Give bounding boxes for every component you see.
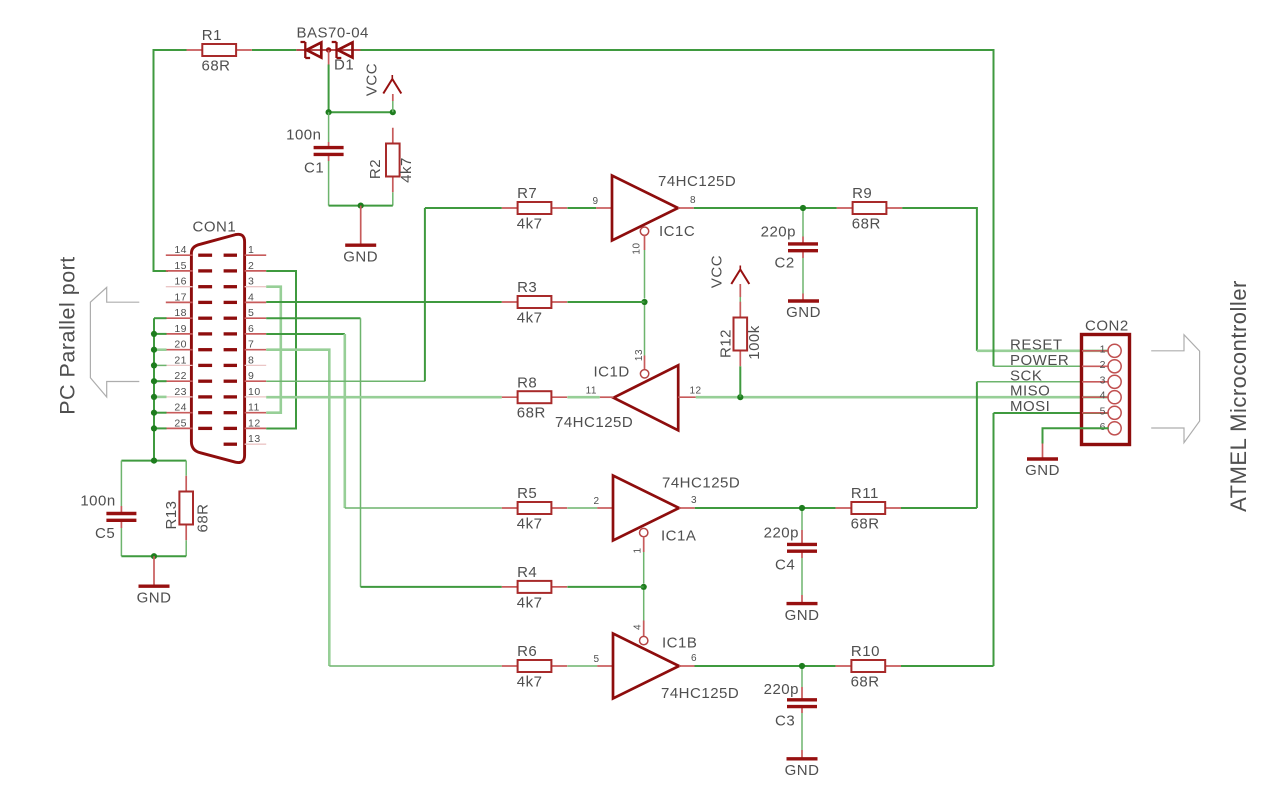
- PC parallel port arrow: [90, 287, 139, 397]
- wire down to R5 row: [343, 334, 346, 508]
- svg-text:17: 17: [174, 291, 187, 303]
- svg-text:220p: 220p: [764, 681, 799, 698]
- junction bus pin 19: [151, 331, 157, 337]
- pin GND lead: [802, 294, 804, 300]
- wire bus to pin 23: [154, 396, 167, 399]
- resistor R7: [502, 185, 567, 232]
- wire junction to IC1B enable: [643, 590, 645, 621]
- svg-text:18: 18: [174, 307, 187, 319]
- pin VCC lead: [739, 284, 741, 297]
- wire IC1C output to R9: [694, 207, 837, 209]
- VCC supply symbol (R12): [709, 255, 750, 288]
- wire to R5: [345, 507, 502, 509]
- wire CON1 ground bus: [153, 318, 155, 460]
- svg-text:23: 23: [174, 386, 187, 398]
- pin 8 of IC1C: [678, 207, 694, 209]
- wire R2 to ground rail: [392, 192, 394, 205]
- svg-text:13: 13: [634, 349, 645, 361]
- pin 24 of CON1: [166, 402, 212, 414]
- svg-text:100n: 100n: [286, 127, 321, 144]
- svg-text:20: 20: [174, 339, 187, 351]
- pin GND lead: [801, 750, 803, 758]
- svg-text:68R: 68R: [517, 405, 546, 422]
- junction enable net: [641, 299, 647, 305]
- svg-text:R7: R7: [517, 185, 537, 202]
- svg-text:RESET: RESET: [1010, 336, 1063, 353]
- wire POWER to CON2: [994, 365, 1109, 367]
- resistor R5: [502, 485, 567, 532]
- svg-text:R13: R13: [163, 500, 180, 529]
- svg-text:220p: 220p: [764, 525, 799, 542]
- enable bubble IC1C: [640, 227, 648, 235]
- svg-text:C1: C1: [304, 160, 324, 177]
- pin 21 of CON1: [166, 354, 212, 366]
- svg-text:220p: 220p: [761, 224, 796, 241]
- wire R1 to D1: [252, 49, 296, 51]
- svg-text:3: 3: [248, 276, 254, 288]
- wire R9 to RESET corner: [902, 208, 977, 351]
- pin 1 of CON1: [224, 244, 267, 256]
- ground GND (CON2): [1025, 459, 1060, 479]
- enable bubble IC1B: [640, 636, 648, 644]
- svg-text:12: 12: [690, 386, 702, 397]
- op-amp buffer IC1B (74HC125D): [613, 634, 679, 699]
- pin 20 of CON1: [166, 339, 212, 351]
- svg-text:IC1A: IC1A: [661, 528, 696, 545]
- wire VCC to node: [392, 101, 394, 112]
- pin 13 of IC1D: [644, 356, 646, 370]
- pin 2 of IC1A: [597, 507, 613, 509]
- resistor R6: [502, 643, 567, 690]
- svg-text:74HC125D: 74HC125D: [661, 685, 739, 702]
- wire bus to pin 19: [154, 333, 167, 335]
- wire R8 to IC1D output: [567, 396, 599, 399]
- wire bus to pin 21: [154, 364, 167, 366]
- wire R11 right: [901, 507, 977, 509]
- pin 2 of CON1: [224, 260, 267, 272]
- wire IC1A enable to junction: [643, 552, 645, 584]
- svg-text:R5: R5: [517, 485, 537, 502]
- pin 12 of CON1: [224, 417, 267, 429]
- wire R4 to enable junction: [567, 586, 643, 588]
- svg-text:2: 2: [593, 496, 599, 507]
- wire R5 to IC1A input: [567, 507, 597, 509]
- wire bus to pin 25: [154, 427, 167, 429]
- svg-text:68R: 68R: [202, 58, 231, 75]
- resistor R2: [367, 128, 415, 193]
- wire IC1C enable to junction: [644, 250, 646, 299]
- wire R13 to bottom rail: [185, 540, 187, 556]
- resistor R3: [502, 279, 567, 326]
- svg-text:VCC: VCC: [709, 255, 726, 288]
- svg-text:10: 10: [631, 242, 642, 254]
- junction bus pin 22: [151, 378, 157, 384]
- ground GND (C1/R2): [343, 245, 378, 265]
- svg-text:IC1D: IC1D: [594, 364, 630, 381]
- svg-text:R11: R11: [851, 485, 879, 502]
- pin 3 of IC1A: [679, 507, 695, 509]
- svg-text:68R: 68R: [851, 516, 880, 533]
- svg-text:R8: R8: [517, 374, 537, 391]
- wire C5/R13 top rail: [121, 460, 186, 462]
- svg-text:4: 4: [248, 291, 254, 303]
- svg-text:68R: 68R: [852, 216, 881, 233]
- svg-text:4: 4: [633, 624, 644, 630]
- wire C2 to ground: [802, 258, 804, 294]
- svg-text:11: 11: [586, 386, 597, 397]
- svg-text:68R: 68R: [851, 674, 880, 691]
- wire to C5: [120, 461, 122, 506]
- svg-text:13: 13: [248, 433, 261, 445]
- wire R3 to enable junction: [567, 301, 644, 303]
- pin 5 of IC1B: [597, 665, 613, 667]
- svg-text:68R: 68R: [195, 503, 212, 532]
- svg-text:74HC125D: 74HC125D: [658, 173, 736, 190]
- svg-text:15: 15: [174, 260, 187, 272]
- op-amp buffer IC1A (74HC125D): [613, 476, 679, 541]
- svg-text:GND: GND: [343, 248, 378, 265]
- pin 10 of IC1C: [644, 235, 646, 250]
- junction enable net A/B: [641, 584, 647, 590]
- junction ground rail: [358, 203, 364, 209]
- pin 9 of IC1C: [596, 207, 612, 209]
- svg-text:VCC: VCC: [364, 63, 381, 96]
- svg-text:C4: C4: [775, 557, 795, 574]
- pin 1 of CON2: [1082, 343, 1121, 357]
- wire D1 tap to VCC node: [328, 65, 330, 113]
- svg-text:8: 8: [690, 195, 696, 206]
- resistor R11: [836, 485, 901, 532]
- svg-text:4k7: 4k7: [517, 216, 543, 233]
- pin 3 of CON1: [224, 276, 267, 288]
- pin GND lead: [801, 595, 803, 602]
- svg-text:74HC125D: 74HC125D: [555, 414, 633, 431]
- wire pin5 toward R4: [266, 317, 360, 319]
- resistor R13: [163, 476, 212, 541]
- svg-text:9: 9: [592, 196, 598, 207]
- svg-text:1: 1: [1100, 343, 1106, 355]
- wire VCC node rail: [329, 111, 393, 113]
- ground GND (C2): [786, 301, 821, 321]
- svg-text:R3: R3: [517, 279, 537, 296]
- junction bus pin 21: [151, 362, 157, 368]
- pin 22 of CON1: [166, 370, 212, 382]
- wire VCC pin: [392, 94, 394, 101]
- wire to R4: [361, 586, 502, 588]
- svg-text:5: 5: [593, 654, 599, 665]
- wire R7 to IC1C input: [567, 207, 596, 209]
- wire bus to pin 22: [154, 380, 167, 382]
- junction C2 tap: [800, 205, 806, 211]
- pin GND lead: [360, 206, 362, 244]
- pin 7 of CON1: [224, 339, 267, 351]
- wire C5/R13 bottom rail: [121, 555, 186, 557]
- pin 11 of IC1D: [600, 396, 614, 398]
- pin GND lead: [153, 556, 155, 585]
- pin 23 of CON1: [166, 386, 212, 398]
- wire rail to R13: [185, 461, 187, 476]
- wire down to C2: [802, 211, 804, 237]
- wire RESET to CON2: [977, 349, 1109, 352]
- svg-text:74HC125D: 74HC125D: [662, 475, 740, 492]
- wire R12 to MISO junction: [739, 366, 741, 397]
- pin 25 of CON1: [166, 417, 212, 429]
- ground GND (C3): [785, 759, 820, 779]
- pin 4 of CON1: [224, 291, 267, 303]
- wire enable junction to IC1D enable: [644, 305, 646, 356]
- wire bus to pin 24: [154, 412, 167, 414]
- resistor R1: [187, 27, 252, 74]
- capacitor C5 100n: [80, 493, 136, 543]
- svg-text:4: 4: [1100, 390, 1106, 402]
- junction C3 tap: [799, 663, 805, 669]
- svg-text:22: 22: [174, 370, 187, 382]
- svg-text:11: 11: [248, 402, 260, 414]
- junction bus pin 24: [151, 410, 157, 416]
- wire C4 to ground: [801, 558, 803, 595]
- wire pin7 toward R6: [266, 350, 329, 666]
- junction bus pin 23: [151, 394, 157, 400]
- svg-text:3: 3: [691, 495, 697, 506]
- wire pin10 to R8 (MISO): [266, 396, 502, 399]
- wire down to C3: [801, 669, 803, 687]
- svg-text:24: 24: [174, 402, 187, 414]
- svg-text:100n: 100n: [80, 493, 115, 510]
- pin 10 of CON1: [224, 386, 267, 398]
- svg-text:C2: C2: [775, 255, 795, 272]
- svg-text:6: 6: [691, 653, 697, 664]
- enable bubble IC1D: [640, 370, 648, 378]
- wire C3 to ground: [801, 713, 803, 750]
- wire pin3 to pin11 loopback: [266, 287, 281, 413]
- pin 15 of CON1: [166, 260, 212, 272]
- svg-text:MOSI: MOSI: [1010, 398, 1050, 415]
- pin C2 leads: [802, 237, 804, 259]
- svg-text:ATMEL Microcontroller: ATMEL Microcontroller: [1226, 280, 1251, 512]
- pin 2 of CON2: [1082, 359, 1121, 373]
- svg-text:5: 5: [1100, 405, 1106, 417]
- svg-text:4k7: 4k7: [517, 594, 543, 611]
- pin C1 top lead: [328, 142, 330, 161]
- capacitor C4 220p: [764, 525, 817, 574]
- svg-text:2: 2: [1100, 359, 1106, 371]
- wire VCC node to C1: [328, 112, 330, 142]
- svg-text:CON2: CON2: [1085, 318, 1129, 335]
- pin 3 of CON2: [1082, 374, 1121, 388]
- svg-text:4k7: 4k7: [398, 157, 415, 183]
- svg-text:IC1B: IC1B: [662, 635, 697, 652]
- pin 9 of CON1: [224, 370, 267, 382]
- pin 18 of CON1: [166, 307, 212, 319]
- wire D1 to POWER corner: [361, 50, 994, 366]
- svg-text:25: 25: [174, 417, 187, 429]
- svg-text:19: 19: [174, 323, 187, 335]
- wire up to R7 row: [425, 208, 502, 381]
- pin 11 of CON1: [224, 402, 267, 414]
- svg-text:GND: GND: [785, 607, 820, 624]
- enable bubble IC1A: [640, 528, 648, 536]
- svg-text:21: 21: [174, 354, 187, 366]
- svg-text:100k: 100k: [746, 325, 763, 360]
- wire IC1B output to R10: [695, 665, 836, 667]
- svg-text:14: 14: [174, 244, 187, 256]
- junction bus to C5 rail: [151, 458, 157, 464]
- diode D1 (BAS70-04 dual schottky): [296, 25, 369, 74]
- svg-text:1: 1: [633, 547, 644, 553]
- wire bus to pin 18: [154, 317, 167, 319]
- wire to R6: [329, 665, 502, 667]
- pin 19 of CON1: [166, 323, 212, 335]
- svg-text:8: 8: [248, 354, 254, 366]
- svg-text:6: 6: [1100, 421, 1106, 433]
- svg-text:POWER: POWER: [1010, 352, 1069, 369]
- wire CON2 pin6 to GND: [1043, 428, 1109, 443]
- resistor R4: [502, 564, 567, 611]
- svg-text:GND: GND: [137, 589, 172, 606]
- wire R10 to MOSI to CON2: [901, 413, 1109, 666]
- wire MISO row to CON2: [696, 396, 1109, 399]
- pin 6 of IC1B: [679, 665, 695, 667]
- junction MISO / R12: [737, 394, 743, 400]
- svg-text:12: 12: [248, 417, 261, 429]
- svg-text:4k7: 4k7: [517, 516, 543, 533]
- wire bus to pin 20: [154, 348, 167, 351]
- capacitor C1 100n: [286, 127, 343, 177]
- svg-text:7: 7: [248, 339, 254, 351]
- wire ground rail C1-R2: [329, 205, 393, 207]
- svg-text:C3: C3: [775, 713, 795, 730]
- svg-text:R1: R1: [202, 27, 222, 44]
- junction VCC node right: [390, 109, 396, 115]
- capacitor C3 220p: [764, 681, 817, 730]
- pin C3 leads: [801, 687, 803, 713]
- svg-text:R4: R4: [517, 564, 537, 581]
- pin 4 of CON2: [1082, 390, 1121, 404]
- svg-text:MISO: MISO: [1010, 383, 1050, 400]
- wire CON1 pin15 to R1: [154, 50, 187, 271]
- svg-text:4k7: 4k7: [517, 674, 543, 691]
- pin 6 of CON2: [1082, 421, 1121, 435]
- svg-text:10: 10: [248, 386, 261, 398]
- wire IC1A output to R11: [695, 507, 836, 509]
- junction bus pin 25: [151, 425, 157, 431]
- resistor R10: [836, 643, 901, 690]
- resistor R12: [718, 302, 764, 367]
- svg-text:C5: C5: [95, 525, 115, 542]
- svg-text:R6: R6: [517, 643, 537, 660]
- svg-text:PC Parallel port: PC Parallel port: [56, 256, 80, 415]
- svg-text:GND: GND: [786, 304, 821, 321]
- svg-text:IC1C: IC1C: [659, 223, 695, 240]
- ground GND (C5/R13): [137, 586, 172, 606]
- pin 17 of CON1: [166, 291, 212, 303]
- svg-text:R2: R2: [367, 159, 384, 179]
- svg-text:GND: GND: [785, 762, 820, 779]
- pin C5 leads: [120, 506, 122, 528]
- connector CON2 (6-pin ISP header): [1082, 318, 1130, 445]
- wire D1 tap down: [328, 50, 330, 65]
- op-amp buffer IC1D (74HC125D): [614, 365, 679, 430]
- wire SCK to CON2: [977, 381, 1109, 383]
- wire R6 to IC1B input: [567, 665, 597, 667]
- pin C4 leads: [801, 530, 803, 558]
- wire up to SCK row: [976, 382, 978, 508]
- wire pin9 toward R7: [266, 380, 425, 382]
- VCC supply symbol (top): [364, 63, 402, 96]
- ATMEL microcontroller arrow: [1151, 335, 1199, 443]
- wire down to R4 row: [360, 318, 362, 587]
- pin 5 of CON2: [1082, 405, 1121, 419]
- pin 1 of IC1A: [643, 537, 645, 553]
- resistor R9: [837, 185, 902, 232]
- wire down to C4: [801, 511, 803, 530]
- op-amp buffer IC1C (74HC125D): [612, 176, 678, 241]
- svg-text:4k7: 4k7: [517, 310, 543, 327]
- wire pin4 to R3: [266, 301, 502, 303]
- svg-text:5: 5: [248, 307, 254, 319]
- pin 16 of CON1: [166, 276, 212, 288]
- svg-text:9: 9: [248, 370, 254, 382]
- wire C5 to bottom rail: [120, 528, 122, 556]
- junction D1 center tap: [326, 47, 331, 52]
- svg-text:R9: R9: [852, 185, 872, 202]
- pin 12 of IC1D: [678, 396, 696, 398]
- pin 6 of CON1: [224, 323, 267, 335]
- junction bus pin 20: [151, 347, 157, 353]
- svg-text:16: 16: [174, 276, 187, 288]
- junction VCC node left: [326, 109, 332, 115]
- wire pin2 to pin12 loopback: [266, 271, 296, 429]
- svg-text:BAS70-04: BAS70-04: [297, 25, 369, 42]
- svg-text:6: 6: [248, 323, 254, 335]
- svg-text:1: 1: [248, 244, 254, 256]
- pin GND lead: [1042, 444, 1044, 458]
- pin 13 of CON1: [224, 433, 267, 445]
- ground GND (C4): [785, 604, 820, 624]
- pin 4 of IC1B: [643, 621, 645, 637]
- svg-text:CON1: CON1: [193, 219, 237, 236]
- junction C4 tap: [799, 505, 805, 511]
- wire pin6 toward R5: [266, 333, 345, 335]
- svg-text:2: 2: [248, 260, 254, 272]
- svg-text:R10: R10: [851, 643, 880, 660]
- resistor R8: [502, 374, 567, 421]
- pin 14 of CON1: [166, 244, 212, 256]
- connector CON1 (DB25 parallel port): [191, 219, 244, 463]
- pin 5 of CON1: [224, 307, 267, 319]
- wire C1 to ground rail: [328, 161, 330, 206]
- svg-text:GND: GND: [1025, 462, 1060, 479]
- svg-text:D1: D1: [334, 57, 354, 74]
- junction bottom rail: [151, 553, 157, 559]
- pin 8 of CON1: [224, 354, 267, 366]
- capacitor C2 220p: [761, 224, 818, 272]
- wire VCC to R12: [739, 297, 741, 317]
- svg-text:R12: R12: [718, 329, 735, 358]
- svg-text:3: 3: [1100, 374, 1106, 386]
